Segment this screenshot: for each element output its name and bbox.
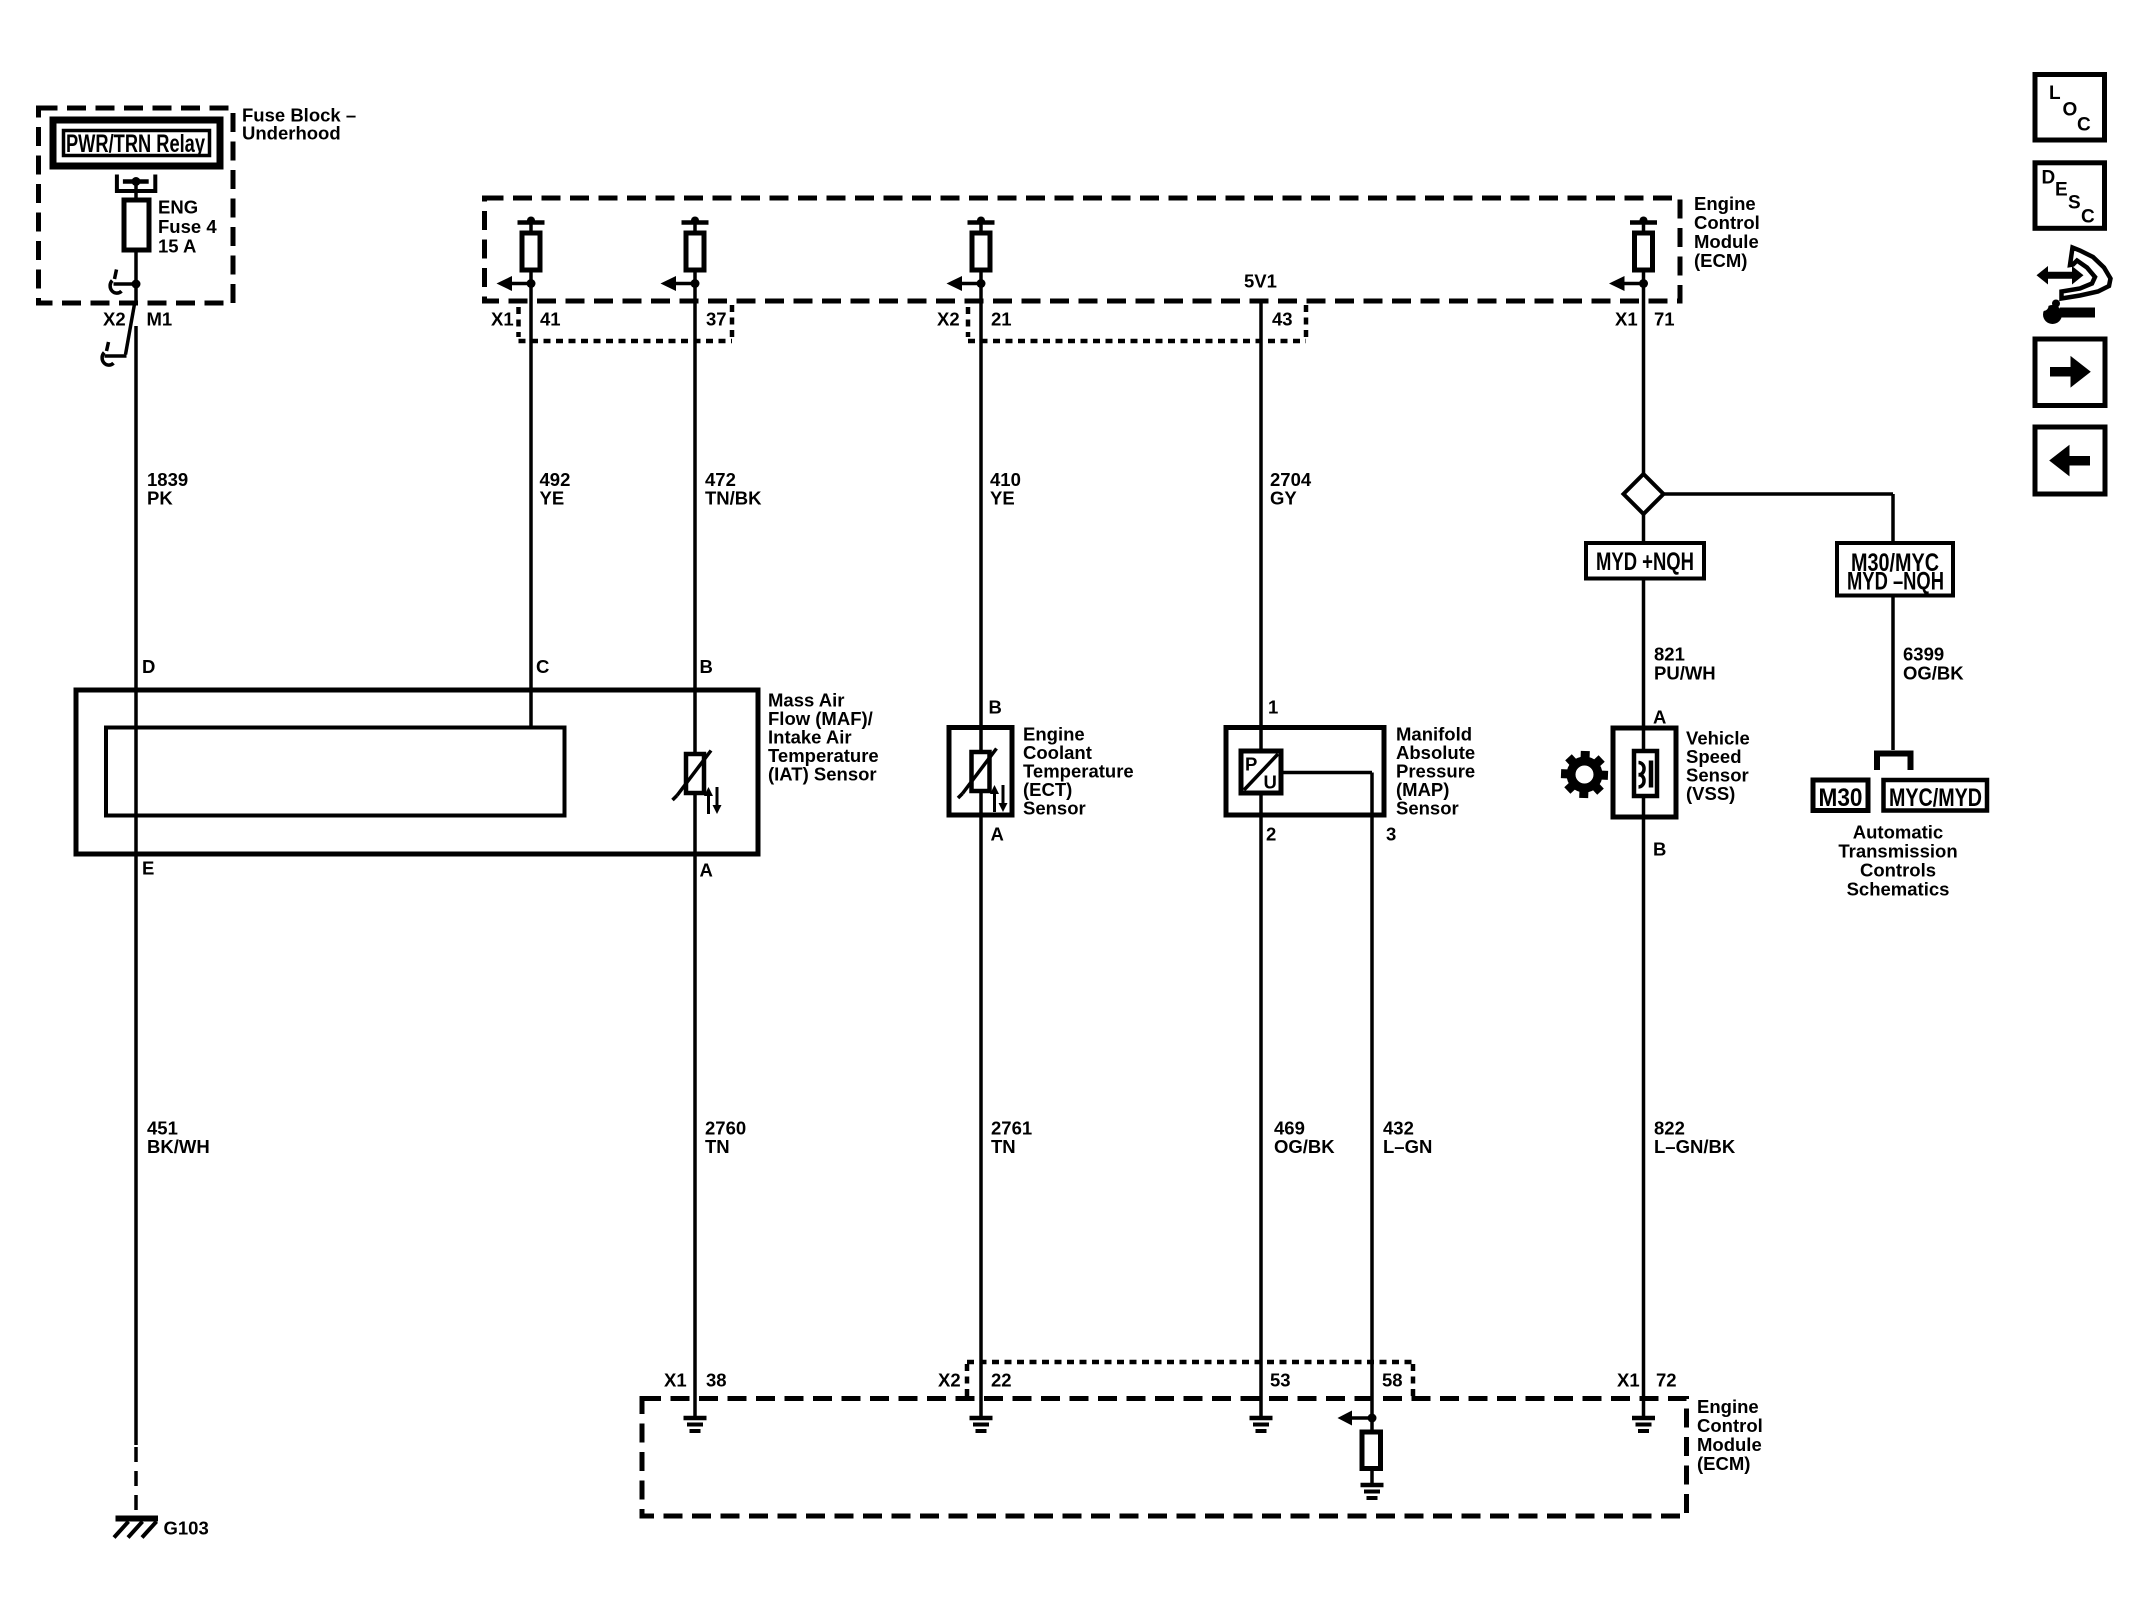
svg-text:A: A (1653, 707, 1666, 728)
wire label 821 PU/WH (1654, 644, 1716, 684)
fuse F: ENG Fuse 4 15 A (124, 197, 217, 257)
ECT sensor B2 (949, 724, 1134, 819)
wire inside MAP: element to pin 3 (1281, 773, 1372, 816)
engine control module (ECM) top dashed enclosure (485, 193, 1760, 301)
page reference box M30 (1813, 780, 1868, 812)
dashed wire to ground G103 (134, 1447, 138, 1516)
wire inside VSS to pin B (1642, 796, 1646, 817)
ground inside ECM at pin 38 (684, 1399, 707, 1432)
svg-text:TN/BK: TN/BK (705, 488, 762, 509)
svg-text:821: 821 (1654, 644, 1685, 665)
svg-text:1: 1 (1268, 697, 1278, 718)
wire 821 PU/WH: ECM 71 to diamond to VSS pin A (1642, 284, 1646, 475)
svg-text:Sensor: Sensor (1396, 798, 1459, 819)
svg-text:YE: YE (540, 488, 565, 509)
page reference box MYC/MYD (1884, 780, 1988, 812)
svg-text:D: D (142, 656, 155, 677)
net label box MYD +NQH (1586, 543, 1704, 579)
wire label 822 L-GN/BK (1654, 1118, 1736, 1158)
svg-text:37: 37 (706, 309, 727, 330)
junction dot at fuse top (132, 177, 141, 186)
svg-text:X2: X2 (103, 309, 126, 330)
svg-text:Engine: Engine (1697, 1396, 1759, 1417)
svg-text:L–GN: L–GN (1383, 1136, 1432, 1157)
svg-text:X1: X1 (1617, 1370, 1640, 1391)
MAF/IAT sensor B1: outer box (76, 690, 879, 855)
wire label 469 OG/BK (1274, 1118, 1335, 1158)
svg-text:Control: Control (1694, 212, 1760, 233)
wire: diamond to M30/MYC branch (1664, 494, 1894, 543)
svg-text:X2: X2 (937, 309, 960, 330)
svg-text:E: E (2055, 180, 2068, 201)
wire 451 BK/WH: MAF E to G103 (134, 854, 138, 1445)
svg-text:PU/WH: PU/WH (1654, 663, 1716, 684)
svg-text:E: E (142, 858, 154, 879)
svg-text:38: 38 (706, 1370, 727, 1391)
VSS sensor B4 (1613, 728, 1750, 818)
svg-text:X2: X2 (938, 1370, 961, 1391)
ECM internal driver, pin 21 (resistor + arrow) (947, 217, 995, 292)
ECM internal driver, pin 37 (resistor + arrow) (661, 217, 709, 292)
wire 2761 TN: ECT A to ECM 22 (979, 815, 983, 1399)
svg-text:C: C (536, 656, 549, 677)
svg-text:OG/BK: OG/BK (1274, 1136, 1335, 1157)
svg-text:B: B (1653, 839, 1666, 860)
wire inside ECT to pin A (979, 791, 983, 815)
svg-text:X1: X1 (664, 1370, 687, 1391)
ground G103 (chassis) (114, 1518, 209, 1539)
svg-text:M30: M30 (1819, 784, 1863, 812)
off-page connector staple (1877, 754, 1911, 771)
svg-text:B: B (989, 697, 1002, 718)
svg-text:Schematics: Schematics (1847, 879, 1950, 900)
icon LOC button (2035, 75, 2105, 141)
svg-text:2: 2 (1266, 824, 1276, 845)
svg-text:15 A: 15 A (158, 236, 196, 257)
VSS pickup element (1634, 751, 1657, 796)
svg-text:72: 72 (1656, 1370, 1677, 1391)
ground inside ECM at pin 58 resistor (1361, 1485, 1384, 1498)
svg-text:MYD –NQH: MYD –NQH (1847, 568, 1944, 596)
svg-text:TN: TN (705, 1136, 730, 1157)
fuse top terminal T-bar (123, 179, 149, 184)
svg-text:A: A (700, 860, 713, 881)
svg-text:M1: M1 (147, 309, 173, 330)
connector M1 in-line terminal symbol (102, 304, 134, 365)
connector box X1 (pins 41-37) (519, 305, 733, 341)
connector box X2 (pins 21-43) (968, 305, 1306, 341)
svg-text:Transmission: Transmission (1838, 841, 1957, 862)
wire label 6399 OG/BK (1903, 644, 1964, 684)
svg-text:C: C (2077, 115, 2091, 136)
wire 1839 PK: relay M1 down to MAF pin D (134, 326, 138, 690)
ground inside ECM at pin 22 (970, 1399, 993, 1432)
svg-text:S: S (2068, 193, 2081, 214)
svg-text:L: L (2049, 83, 2061, 104)
svg-text:Sensor: Sensor (1023, 798, 1086, 819)
svg-text:PK: PK (147, 488, 173, 509)
svg-text:OG/BK: OG/BK (1903, 663, 1964, 684)
wire label 2760 TN (705, 1118, 746, 1158)
connector box X2 (pins 22-53-58) (967, 1362, 1413, 1396)
svg-text:X1: X1 (491, 309, 514, 330)
svg-text:O: O (2063, 100, 2078, 121)
engine control module (ECM) bottom dashed enclosure (642, 1396, 1763, 1516)
svg-text:43: 43 (1272, 309, 1293, 330)
wire inside MAP: element to pin 2 (1259, 793, 1263, 815)
MAP transducer P/U element (1241, 751, 1281, 793)
svg-text:B: B (700, 656, 713, 677)
svg-text:Module: Module (1694, 231, 1759, 252)
svg-text:A: A (991, 824, 1004, 845)
wire through MAF (D to E) (134, 690, 138, 854)
ground inside ECM at pin 53 (1250, 1399, 1273, 1432)
svg-text:(IAT) Sensor: (IAT) Sensor (768, 764, 877, 785)
svg-text:Automatic: Automatic (1853, 822, 1943, 843)
wire label 451 BK/WH (147, 1118, 210, 1158)
svg-text:22: 22 (991, 1370, 1012, 1391)
note: Automatic Transmission Controls Schematics (1838, 822, 1957, 900)
svg-text:(ECM): (ECM) (1694, 250, 1747, 271)
relay contact (movable arm) (110, 270, 136, 294)
svg-text:D: D (2042, 168, 2056, 189)
wire 432 L-GN: MAP 3 to ECM 58 (1370, 815, 1374, 1399)
junction diamond (splice) (1624, 474, 1664, 514)
net label box M30/MYC MYD -NQH (1837, 543, 1953, 596)
wire 822 L-GN/BK: VSS B to ECM 72 (1642, 817, 1646, 1399)
ECT temperature arrows (990, 785, 1008, 812)
junction dot at relay contact (132, 280, 141, 289)
svg-text:ENG: ENG (158, 197, 198, 218)
wire 410 YE: ECM 21 to ECT pin B (979, 284, 983, 753)
IAT thermistor RT1 (673, 751, 712, 801)
relay K: PWR/TRN Relay label box (53, 120, 220, 166)
ground inside ECM at pin 72 (1632, 1399, 1655, 1432)
wire label 410 YE (990, 469, 1021, 509)
wire 2760 TN: MAF A to ECM 38 (693, 854, 697, 1399)
MAF internal element (hot film) (106, 728, 565, 816)
svg-text:BK/WH: BK/WH (147, 1136, 210, 1157)
svg-text:53: 53 (1270, 1370, 1291, 1391)
ECM internal driver, pin 71 (resistor + arrow) (1609, 217, 1657, 292)
svg-text:58: 58 (1382, 1370, 1403, 1391)
icon wrench / connector view (2037, 248, 2111, 325)
svg-text:P: P (1245, 754, 1257, 775)
svg-text:5V1: 5V1 (1244, 271, 1277, 292)
svg-text:Fuse 4: Fuse 4 (158, 216, 217, 237)
wire 492 YE: ECM 41 to MAF pin C (529, 284, 533, 728)
svg-text:6399: 6399 (1903, 644, 1944, 665)
svg-text:41: 41 (540, 309, 561, 330)
svg-text:3: 3 (1386, 824, 1396, 845)
ECM internal driver, pin 41 (resistor + arrow) (497, 217, 545, 292)
svg-text:(VSS): (VSS) (1686, 783, 1735, 804)
separator dash X1 (516, 307, 521, 337)
wire label 492 YE (540, 469, 571, 509)
separator dash X2 (966, 307, 971, 337)
wire: fuse to relay contact (134, 250, 138, 303)
svg-text:21: 21 (991, 309, 1012, 330)
wire label 432 L-GN (1383, 1118, 1432, 1158)
svg-text:Engine: Engine (1694, 193, 1756, 214)
svg-text:MYC/MYD: MYC/MYD (1889, 784, 1982, 812)
wire 2704 GY (5V1): ECM 43 to MAP pin 1 (1259, 299, 1263, 751)
wire inside MAF: thermistor to pin A (693, 793, 697, 854)
svg-text:MYD +NQH: MYD +NQH (1596, 548, 1694, 576)
IAT temperature arrows (704, 787, 722, 814)
svg-text:Controls: Controls (1860, 860, 1936, 881)
VSS gear icon (1560, 750, 1609, 799)
svg-text:71: 71 (1654, 309, 1675, 330)
wire: fuse top to fuse body (134, 182, 138, 201)
icon DESC button (2035, 163, 2105, 229)
svg-text:GY: GY (1270, 488, 1297, 509)
icon forward arrow button (2035, 339, 2105, 406)
wire label 2761 TN (991, 1118, 1032, 1158)
wire label 1839 PK (147, 469, 188, 509)
wire 472 TN/BK: ECM 37 to MAF pin B (693, 284, 697, 755)
svg-text:G103: G103 (164, 1518, 209, 1539)
svg-text:TN: TN (991, 1136, 1016, 1157)
ECT thermistor RT2 (958, 749, 997, 799)
svg-text:(ECM): (ECM) (1697, 1453, 1750, 1474)
svg-text:Underhood: Underhood (242, 123, 341, 144)
wire label 2704 GY (1270, 469, 1312, 509)
ECM internal pull-down at pin 58 (1338, 1399, 1381, 1486)
svg-text:X1: X1 (1615, 309, 1638, 330)
svg-text:C: C (2081, 207, 2095, 228)
svg-text:Module: Module (1697, 1434, 1762, 1455)
svg-text:U: U (1264, 772, 1277, 793)
svg-text:YE: YE (990, 488, 1015, 509)
svg-text:L–GN/BK: L–GN/BK (1654, 1136, 1736, 1157)
wire 6399 OG/BK: box to off-page connector (1891, 596, 1895, 751)
wire label 472 TN/BK (705, 469, 762, 509)
icon back arrow button (2035, 427, 2105, 494)
MAP sensor B3 (1226, 724, 1475, 819)
fuse holder bracket (117, 175, 155, 192)
svg-text:PWR/TRN Relay: PWR/TRN Relay (66, 130, 205, 158)
svg-text:Control: Control (1697, 1415, 1763, 1436)
fuse block - underhood dashed enclosure (39, 105, 357, 304)
wire 469 OG/BK: MAP 2 to ECM 53 (1259, 815, 1263, 1399)
